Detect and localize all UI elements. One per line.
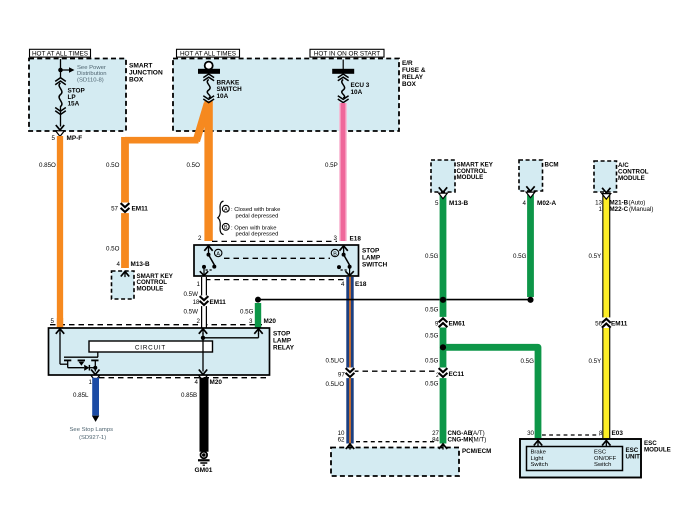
svg-text:BCM: BCM [545, 161, 559, 168]
svg-text:SWITCH: SWITCH [362, 261, 388, 268]
smart key control module (right) [431, 160, 494, 207]
svg-text:97: 97 [338, 371, 345, 378]
svg-text:ESC: ESC [594, 450, 607, 456]
svg-text:: Open with brake: : Open with brake [231, 225, 276, 231]
svg-text:E18: E18 [350, 236, 362, 243]
connector PCM dashed line [338, 430, 487, 443]
svg-text:3: 3 [334, 235, 338, 242]
svg-text:STOP: STOP [362, 247, 380, 254]
svg-text:(M/T): (M/T) [472, 436, 487, 443]
svg-text:Light: Light [531, 456, 544, 462]
hot at all times label (left) [30, 49, 91, 57]
svg-text:A: A [216, 251, 220, 257]
svg-text:(Manual): (Manual) [629, 206, 653, 213]
connector E18 top dashed line [198, 235, 361, 243]
circuit box [89, 341, 213, 352]
svg-text:4: 4 [117, 261, 121, 268]
svg-text:0.5G: 0.5G [425, 357, 439, 364]
svg-text:0.85L: 0.85L [73, 392, 89, 399]
svg-text:STOP: STOP [273, 330, 291, 337]
svg-text:M20: M20 [210, 379, 223, 386]
svg-text:10A: 10A [217, 93, 229, 100]
svg-text:0.5G: 0.5G [425, 380, 439, 387]
svg-text:SMART: SMART [129, 63, 152, 70]
svg-text:0.5Y: 0.5Y [589, 358, 602, 365]
connector MP-F pin 5 [52, 125, 83, 142]
svg-text:M13-B: M13-B [131, 261, 151, 268]
svg-text:LAMP: LAMP [362, 254, 381, 261]
svg-text:0.5L/O: 0.5L/O [326, 381, 345, 388]
svg-text:0.5G: 0.5G [425, 333, 439, 340]
svg-text:0.5O: 0.5O [187, 162, 201, 169]
svg-text:62: 62 [338, 436, 345, 443]
svg-text:GM01: GM01 [195, 467, 213, 474]
stop lamp relay box [49, 328, 295, 375]
svg-text:MODULE: MODULE [644, 446, 671, 453]
esc module box [520, 439, 671, 478]
svg-text:M02-A: M02-A [537, 200, 557, 207]
wire 0.85O overlay over connector line [57, 318, 63, 328]
connector M20 bottom dashed line [89, 378, 269, 386]
wire 0.5O orange main (brake switch to stop lamp switch) [106, 101, 209, 241]
relay internal wiring [60, 333, 259, 372]
connector EM61 [425, 307, 466, 340]
svg-text:4: 4 [523, 200, 527, 207]
svg-text:0.5W: 0.5W [184, 308, 199, 315]
ground GM01 [195, 452, 213, 475]
svg-text:8: 8 [599, 430, 603, 437]
wire 0.5W white (switch pin1 to relay pin2) [184, 277, 227, 328]
wire 0.5G green (BCM to bus) [513, 186, 535, 297]
connector E03 dashed line [527, 430, 623, 437]
svg-text:Distribution: Distribution [77, 71, 106, 77]
smart key control module (left) [112, 271, 174, 299]
bcm module [519, 160, 559, 207]
svg-text:A: A [224, 207, 228, 213]
hot at all times label (middle) [177, 49, 240, 57]
svg-text:LAMP: LAMP [273, 337, 292, 344]
connector EC11 / 97 dashed line [326, 357, 465, 388]
wire 0.5Y yellow (A/C to ESC) [589, 188, 628, 438]
wire 0.5L/O navy-orange (switch pin4 to PCM) [346, 277, 353, 444]
svg-text:See Stop Lamps: See Stop Lamps [70, 427, 114, 433]
svg-text:9: 9 [435, 320, 439, 327]
svg-text:FUSE &: FUSE & [402, 67, 426, 74]
svg-text:MODULE: MODULE [457, 174, 484, 181]
svg-text:0.5G: 0.5G [425, 253, 439, 260]
svg-text:pedal depressed: pedal depressed [236, 232, 279, 238]
svg-text:0.85B: 0.85B [181, 392, 197, 399]
node see power distribution [58, 65, 106, 84]
svg-text:0.5P: 0.5P [325, 162, 338, 169]
svg-text:5: 5 [51, 318, 55, 325]
wire 0.5O labels on branch [106, 203, 150, 269]
relay bottom pin arrows [91, 370, 208, 381]
wire bus line to BCM/smart key [258, 299, 531, 301]
fuse ECU 3 10A [332, 60, 370, 103]
svg-text:ON/OFF: ON/OFF [594, 456, 617, 462]
svg-text:56: 56 [595, 320, 602, 327]
svg-text:BOX: BOX [129, 77, 144, 84]
svg-text:1: 1 [197, 281, 201, 288]
wire orange branch to smart key module [125, 104, 208, 269]
svg-text:(SD110-8): (SD110-8) [77, 78, 104, 84]
svg-text:5: 5 [52, 135, 56, 142]
svg-text:84: 84 [432, 436, 439, 443]
svg-text:4: 4 [341, 281, 345, 288]
switch B (open with brake pedal depressed) [331, 246, 354, 276]
svg-text:HOT AT ALL TIMES: HOT AT ALL TIMES [180, 51, 236, 58]
svg-text:EM11: EM11 [611, 320, 628, 327]
svg-text:B: B [333, 251, 337, 257]
svg-text:0.5O: 0.5O [106, 162, 120, 169]
svg-text:BOX: BOX [402, 81, 417, 88]
svg-text:Switch: Switch [531, 462, 548, 468]
svg-text:2: 2 [197, 318, 201, 325]
e/r fuse and relay box [173, 59, 426, 132]
svg-text:JUNCTION: JUNCTION [129, 70, 163, 77]
svg-text:0.5G: 0.5G [513, 253, 527, 260]
svg-text:E/R: E/R [402, 60, 413, 67]
connector E18 bottom dashed line [197, 280, 367, 288]
svg-text:30: 30 [527, 430, 534, 437]
svg-text:1: 1 [599, 206, 603, 213]
connector M20 top dashed line [50, 318, 262, 325]
svg-text:0.5L/O: 0.5L/O [326, 357, 345, 364]
wire 0.85O orange left [39, 136, 60, 328]
switch A (closed with brake pedal depressed) [200, 246, 222, 276]
svg-text:0.85O: 0.85O [39, 162, 56, 169]
svg-text:1: 1 [89, 379, 93, 386]
svg-text:2: 2 [198, 235, 202, 242]
wire 0.5G green (smart key to PCM) [425, 187, 447, 443]
svg-text:HOT AT ALL TIMES: HOT AT ALL TIMES [32, 51, 88, 58]
node junction dots [255, 297, 534, 351]
fuse BRAKE SWITCH 10A [198, 62, 242, 103]
smart junction box [29, 59, 163, 132]
wire 0.5G green branch to ESC [443, 347, 538, 438]
svg-text:CNG-MK: CNG-MK [448, 436, 474, 443]
svg-text:E18: E18 [355, 281, 367, 288]
svg-text:EM11: EM11 [210, 299, 227, 306]
svg-text:4: 4 [195, 379, 199, 386]
stop lamp switch box [194, 245, 388, 276]
svg-text:M20: M20 [264, 318, 277, 325]
svg-text:18: 18 [193, 299, 200, 306]
svg-text:See Power: See Power [77, 65, 106, 71]
svg-text:PCM/ECM: PCM/ECM [462, 448, 491, 455]
svg-text:RELAY: RELAY [402, 74, 424, 81]
svg-text:RELAY: RELAY [273, 344, 295, 351]
svg-text:0.5G: 0.5G [521, 358, 535, 365]
svg-text:5: 5 [435, 200, 439, 207]
svg-text:E03: E03 [612, 430, 624, 437]
svg-text:(SD927-1): (SD927-1) [79, 435, 106, 441]
svg-text:pedal depressed: pedal depressed [236, 214, 279, 220]
svg-text:10A: 10A [351, 89, 363, 96]
transistor Q1 with diode [60, 352, 99, 372]
svg-text:MODULE: MODULE [137, 286, 164, 293]
svg-text:0.5O: 0.5O [106, 246, 120, 253]
svg-text:EM61: EM61 [449, 320, 466, 327]
svg-text:UNIT: UNIT [626, 453, 641, 460]
fuse STOP LP 15A [55, 59, 85, 127]
switch mechanical link [224, 257, 330, 259]
wire 0.5G green (junction to relay pin3) [240, 303, 276, 328]
pcm/ecm module [331, 444, 491, 476]
svg-text:MODULE: MODULE [618, 175, 645, 182]
svg-text:Brake: Brake [531, 450, 547, 456]
svg-text:M22-C: M22-C [610, 206, 629, 213]
svg-text:0.5W: 0.5W [184, 291, 199, 298]
svg-text:0.5Y: 0.5Y [589, 253, 602, 260]
svg-text:HOT IN ON OR START: HOT IN ON OR START [314, 51, 380, 58]
wire 0.85L blue to stop lamps [70, 378, 114, 441]
svg-text:B: B [224, 225, 228, 231]
wire 0.85B black to ground [181, 378, 204, 452]
svg-text:MP-F: MP-F [67, 135, 83, 142]
svg-text:3: 3 [249, 318, 253, 325]
svg-text:CIRCUIT: CIRCUIT [135, 344, 166, 351]
svg-text:EM11: EM11 [132, 206, 149, 213]
hot in on or start label [310, 49, 384, 57]
svg-text:Switch: Switch [594, 462, 611, 468]
svg-text:0.5G: 0.5G [240, 308, 254, 315]
svg-text:M13-B: M13-B [449, 200, 469, 207]
svg-text:EC11: EC11 [449, 371, 465, 378]
relay pin arrows [56, 329, 263, 335]
svg-text:57: 57 [111, 206, 118, 213]
a/c control module [594, 161, 653, 213]
legend A/B [218, 201, 280, 238]
svg-text:: Closed with brake: : Closed with brake [231, 207, 280, 213]
wire 0.5P pink [325, 103, 343, 241]
svg-text:15A: 15A [68, 101, 80, 108]
svg-text:0.5G: 0.5G [425, 307, 439, 314]
